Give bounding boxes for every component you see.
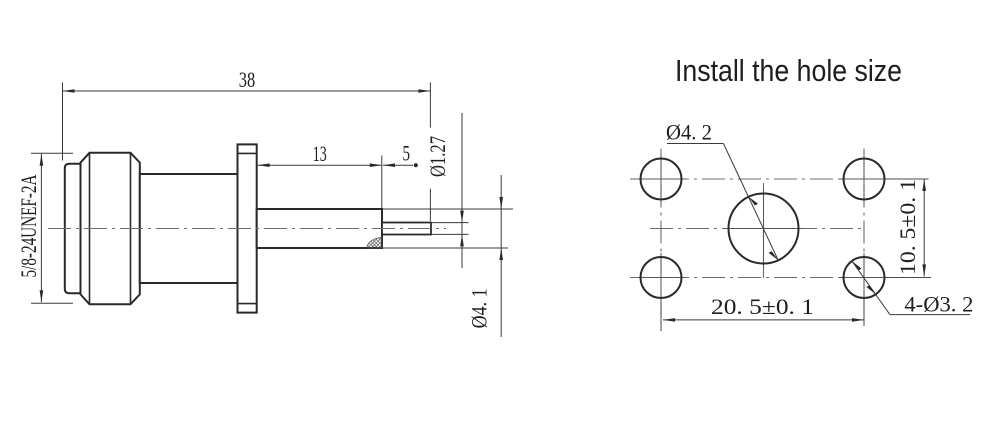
big circle vertical centerline bbox=[763, 183, 765, 280]
hex face line right bbox=[130, 153, 132, 304]
column centerline left bbox=[660, 149, 662, 332]
dim 20.5±0.1 bbox=[663, 319, 864, 321]
hole top-right bbox=[844, 159, 885, 200]
flange bottom edge line bbox=[238, 303, 257, 305]
svg-text:13: 13 bbox=[313, 141, 327, 166]
flange bbox=[238, 144, 257, 312]
dim 5/8-24UNEF-2A line bbox=[31, 153, 73, 303]
svg-text:Ø4. 1: Ø4. 1 bbox=[467, 288, 492, 328]
Ø4.2 leader bbox=[667, 144, 778, 261]
hole bottom-right bbox=[844, 257, 885, 298]
svg-text:10. 5±0. 1: 10. 5±0. 1 bbox=[895, 179, 920, 275]
dim Ø4.1 bbox=[383, 175, 513, 337]
center hole Ø4.2 bbox=[729, 194, 799, 264]
svg-text:5: 5 bbox=[403, 141, 411, 166]
rear tube bbox=[257, 209, 382, 248]
dim 38 arrows bbox=[63, 89, 75, 93]
svg-text:5/8-24UNEF-2A: 5/8-24UNEF-2A bbox=[16, 174, 41, 278]
Ø4.1 arrows bbox=[499, 197, 503, 209]
thread dim arrows bbox=[40, 154, 44, 166]
svg-text:Install the hole size: Install the hole size bbox=[675, 53, 902, 88]
dim 5 dot bbox=[414, 163, 418, 167]
row centerline 2 bbox=[630, 277, 931, 279]
crosshair top-left hole bbox=[637, 155, 686, 204]
row centerline 1 bbox=[630, 178, 928, 180]
svg-text:Ø1.27: Ø1.27 bbox=[425, 136, 450, 177]
4-Ø3.2 label leader bbox=[852, 261, 970, 315]
insulator hatch bbox=[367, 238, 382, 249]
flange top edge line bbox=[238, 152, 257, 154]
dim Ø1.27 bbox=[432, 113, 469, 268]
dim 13 arrows bbox=[258, 163, 270, 167]
dim 13 line bbox=[258, 156, 382, 209]
hex face line left bbox=[89, 153, 91, 304]
svg-text:20. 5±0. 1: 20. 5±0. 1 bbox=[711, 294, 814, 319]
hex coupling nut body bbox=[81, 153, 140, 304]
dim 5 arrow bbox=[383, 163, 395, 167]
column centerline right bbox=[863, 149, 865, 327]
dim 5 line bbox=[383, 164, 413, 166]
hole bottom-left bbox=[641, 257, 682, 298]
crosshair bottom-left hole bbox=[637, 253, 686, 302]
crosshair top-right hole bbox=[840, 155, 889, 204]
centerline (axis) bbox=[48, 228, 446, 230]
svg-text:Ø4. 2: Ø4. 2 bbox=[666, 119, 712, 144]
svg-text:38: 38 bbox=[239, 67, 256, 92]
crosshair center hole bbox=[724, 189, 804, 269]
svg-text:4-Ø3. 2: 4-Ø3. 2 bbox=[904, 292, 973, 317]
extension segments (solid) bbox=[661, 179, 931, 331]
crosshair bottom-right hole bbox=[840, 253, 889, 302]
barrel bbox=[140, 174, 238, 283]
Ø1.27 arrows bbox=[460, 211, 464, 223]
cap (left end sleeve) bbox=[65, 164, 81, 293]
dim 38 line bbox=[63, 82, 431, 221]
Ø4.2 leader arrows bbox=[748, 197, 758, 206]
hole top-left bbox=[641, 159, 682, 200]
middle centerline bbox=[650, 228, 866, 230]
dim 10.5±0.1 bbox=[923, 179, 925, 276]
center pin bbox=[382, 223, 431, 235]
